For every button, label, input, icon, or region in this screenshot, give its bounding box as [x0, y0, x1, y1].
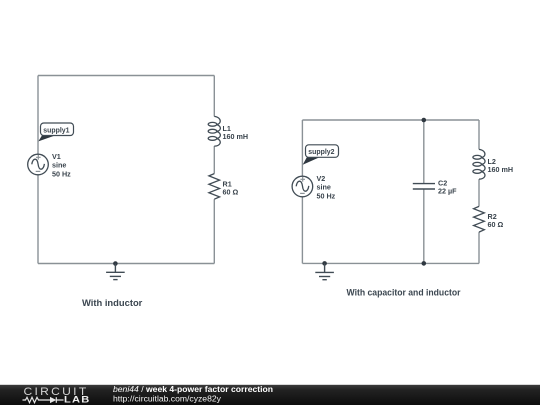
svg-text:LAB: LAB: [64, 395, 91, 405]
wire: right circuit left side (above V2): [301, 120, 303, 176]
svg-text:160 mH: 160 mH: [223, 132, 249, 141]
label R2 value text: [488, 212, 504, 229]
node: junction dot bottom of C2 branch: [422, 261, 427, 266]
svg-text:With capacitor and inductor: With capacitor and inductor: [347, 286, 461, 297]
ground (left circuit): [106, 264, 125, 280]
resistor R1: [209, 174, 220, 200]
wire: left circuit right side (L1 to R1): [213, 146, 215, 174]
svg-text:V2: V2: [317, 174, 326, 183]
svg-text:60 Ω: 60 Ω: [488, 220, 504, 229]
node: junction dot top of C2 branch: [422, 118, 427, 123]
flag supply1: [38, 123, 73, 141]
voltage source V1: [28, 154, 49, 175]
label R1 value text: [223, 179, 239, 196]
svg-text:supply1: supply1: [43, 125, 69, 134]
svg-text:beni44 / week 4-power factor c: beni44 / week 4-power factor correction: [113, 384, 273, 394]
capacitor C2: [413, 184, 435, 189]
wire: left circuit left side (below V1): [37, 175, 39, 264]
ground (right circuit): [315, 263, 334, 279]
logo schematic glyph (resistor + diode): [23, 397, 64, 403]
label V1 value text: [52, 152, 71, 178]
svg-text:With inductor: With inductor: [82, 297, 143, 308]
resistor R2: [474, 206, 485, 232]
wire: left circuit right side (top to L1): [213, 76, 215, 117]
wire: left circuit left side (above V1): [37, 76, 39, 155]
wire: capacitor branch lower: [423, 189, 425, 263]
svg-text:50 Hz: 50 Hz: [317, 191, 336, 200]
wire: right circuit left side (below V2): [301, 197, 303, 264]
inductor L1: [208, 116, 220, 146]
svg-text:sine: sine: [52, 161, 66, 170]
wire: right branch (L2 to R2): [478, 179, 480, 206]
label V2 value text: [317, 174, 336, 200]
voltage source V2: [292, 176, 313, 197]
wire: capacitor branch upper: [423, 120, 425, 184]
svg-text:V1: V1: [52, 152, 61, 161]
label L2 value text: [488, 157, 514, 174]
svg-text:supply2: supply2: [308, 147, 334, 156]
wire: right branch (R2 to bottom): [478, 232, 480, 263]
wire: right circuit top: [302, 119, 479, 121]
logo diode triangle: [50, 397, 56, 403]
svg-text:http://circuitlab.com/cyze82y: http://circuitlab.com/cyze82y: [113, 394, 222, 404]
wire: left circuit bottom: [38, 263, 214, 265]
flag supply2: [303, 145, 339, 165]
svg-text:sine: sine: [317, 183, 331, 192]
inductor L2: [473, 149, 485, 179]
wire: left circuit right side (R1 to bottom): [213, 199, 215, 263]
svg-text:50 Hz: 50 Hz: [52, 169, 71, 178]
wire: right branch (top to L2): [478, 120, 480, 149]
label C2 value text: [438, 179, 457, 196]
svg-text:60 Ω: 60 Ω: [223, 187, 239, 196]
label L1 value text: [223, 124, 249, 141]
node: ground junction dot left: [113, 261, 118, 266]
node: ground junction dot right: [322, 261, 327, 266]
svg-text:160 mH: 160 mH: [488, 165, 514, 174]
wire: left circuit top: [38, 75, 214, 77]
svg-text:22 µF: 22 µF: [438, 186, 457, 195]
wire: right circuit bottom: [302, 262, 479, 264]
